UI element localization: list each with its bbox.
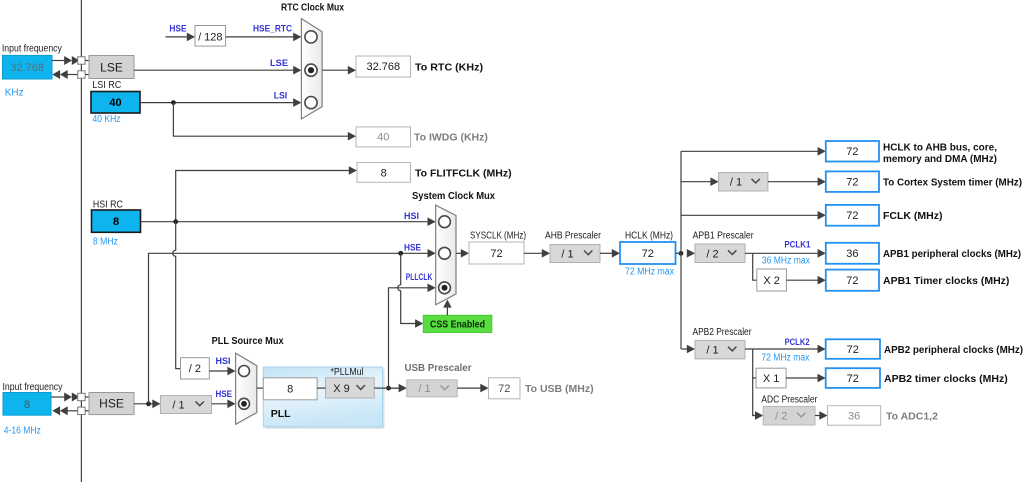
svg-text:X 9: X 9 bbox=[333, 383, 350, 395]
PLL container block bbox=[265, 369, 384, 429]
arrow out 1 (bottom) bbox=[52, 406, 60, 415]
svg-text:To RTC (KHz): To RTC (KHz) bbox=[415, 61, 483, 73]
arrow HSE into system mux bbox=[428, 249, 436, 258]
svg-text:APB2 Prescaler: APB2 Prescaler bbox=[693, 327, 753, 338]
multiplier X 1 bbox=[756, 368, 786, 388]
svg-text:LSE: LSE bbox=[100, 60, 123, 74]
node LSI junction bbox=[171, 100, 176, 105]
output box To USB 72 bbox=[489, 378, 521, 399]
arrow into SYSCLK box bbox=[461, 249, 469, 258]
wire HSE_RTC to RTC mux bbox=[226, 36, 294, 38]
oscillator LSE bbox=[89, 56, 134, 79]
wire trunk to FCLK box bbox=[681, 214, 818, 216]
pin square bottom-in bbox=[78, 393, 85, 400]
svg-text:8: 8 bbox=[287, 384, 293, 396]
value box Cortex 72 bbox=[826, 171, 879, 192]
radio HSI (unselected) bbox=[439, 216, 451, 228]
svg-text:*PLLMul: *PLLMul bbox=[331, 367, 364, 378]
svg-text:Input frequency: Input frequency bbox=[3, 382, 63, 393]
svg-text:HSE: HSE bbox=[99, 397, 124, 411]
svg-text:PLL: PLL bbox=[271, 408, 291, 420]
pin square top-out bbox=[78, 71, 85, 78]
arrow into CSS Enabled bbox=[415, 319, 423, 328]
arrow /1 into PLL mux bbox=[227, 400, 235, 409]
svg-text:72: 72 bbox=[847, 373, 859, 385]
arrow into /128 bbox=[187, 33, 195, 42]
radio HSE (unselected) bbox=[439, 247, 451, 259]
multiplier X 2 bbox=[757, 269, 787, 291]
svg-text:HSE: HSE bbox=[169, 23, 186, 34]
svg-text:8: 8 bbox=[381, 167, 387, 179]
wire APB1 down to X2 bbox=[753, 253, 757, 280]
arrow into Cortex box bbox=[818, 177, 826, 186]
input frequency box 8 (HSE input) bbox=[3, 393, 51, 416]
arrow LSE into mux bbox=[293, 66, 301, 75]
svg-text:/ 128: / 128 bbox=[198, 31, 222, 43]
svg-text:HSE_RTC: HSE_RTC bbox=[253, 23, 292, 34]
oscillator HSI RC box 8 bbox=[92, 210, 141, 232]
output box To FLITFCLK 8 bbox=[357, 163, 411, 183]
wire Cortex prescaler to box bbox=[768, 181, 818, 183]
node HSE-CSS junction bbox=[398, 251, 403, 256]
svg-text:Input frequency: Input frequency bbox=[2, 44, 62, 55]
svg-text:72 MHz max: 72 MHz max bbox=[625, 267, 674, 278]
prescaler / 1 (HSE PLL) bbox=[161, 396, 212, 414]
svg-text:40: 40 bbox=[377, 132, 389, 144]
svg-text:FCLK (MHz): FCLK (MHz) bbox=[883, 210, 942, 222]
wire /1 to PLL mux bbox=[212, 403, 229, 405]
radio LSI (unselected) bbox=[305, 97, 317, 109]
value box HCLK-AHB 72 bbox=[826, 141, 879, 162]
wire system mux output bbox=[456, 252, 462, 254]
svg-text:LSE: LSE bbox=[270, 58, 288, 69]
wire /2 to PLL mux bbox=[209, 370, 228, 372]
svg-text:LSI: LSI bbox=[274, 90, 288, 101]
value box FCLK 72 bbox=[826, 205, 879, 226]
svg-text:CSS Enabled: CSS Enabled bbox=[430, 320, 485, 331]
wire ADC prescaler to box bbox=[815, 415, 820, 417]
svg-text:APB2 timer clocks (MHz): APB2 timer clocks (MHz) bbox=[884, 373, 1008, 385]
wire SYSCLK to AHB prescaler bbox=[524, 252, 543, 254]
arrow in 1 (top) bbox=[64, 56, 72, 65]
svg-text:X 1: X 1 bbox=[763, 373, 780, 385]
mux PLL Source Mux body bbox=[236, 353, 257, 424]
svg-text:System Clock Mux: System Clock Mux bbox=[412, 190, 495, 202]
divider / 2 (PLL HSI) bbox=[181, 358, 210, 379]
wire PLLCLK up to system mux bbox=[389, 288, 429, 388]
svg-text:KHz: KHz bbox=[5, 88, 24, 99]
wire HSE to divider /128 bbox=[166, 36, 188, 38]
svg-text:APB2 peripheral clocks (MHz): APB2 peripheral clocks (MHz) bbox=[884, 344, 1023, 356]
wire LSE to RTC mux bbox=[134, 69, 294, 71]
radio LSE (selected) bbox=[305, 64, 317, 76]
arrow /2 into PLL mux bbox=[227, 367, 235, 376]
arrow into ADC prescaler bbox=[755, 411, 763, 420]
svg-text:PLLCLK: PLLCLK bbox=[406, 272, 433, 283]
arrow out 2 (bottom) bbox=[60, 406, 68, 415]
arrow into APB2 prescaler bbox=[687, 345, 695, 354]
mux System Clock Mux body bbox=[436, 205, 456, 305]
wire PLL to USB prescaler bbox=[389, 387, 400, 389]
oscillator HSE bbox=[89, 393, 134, 415]
svg-text:To USB (MHz): To USB (MHz) bbox=[525, 383, 594, 395]
wire PLL input box to PLLMul bbox=[317, 387, 325, 389]
arrow into APB1 peripheral box bbox=[818, 249, 826, 258]
svg-text:4-16 MHz: 4-16 MHz bbox=[4, 425, 41, 436]
node HSE junction bbox=[146, 401, 151, 406]
svg-text:SYSCLK (MHz): SYSCLK (MHz) bbox=[470, 231, 526, 242]
divider / 128 bbox=[195, 26, 226, 47]
svg-text:APB1 Timer clocks (MHz): APB1 Timer clocks (MHz) bbox=[883, 275, 1009, 287]
svg-text:HSI RC: HSI RC bbox=[93, 200, 123, 211]
svg-text:RTC Clock Mux: RTC Clock Mux bbox=[281, 2, 344, 14]
wire input to chip pin (top) bbox=[52, 60, 65, 62]
svg-text:/ 1: / 1 bbox=[730, 177, 742, 189]
svg-text:/ 2: / 2 bbox=[189, 363, 201, 375]
svg-text:memory and DMA (MHz): memory and DMA (MHz) bbox=[883, 153, 997, 165]
svg-text:HSI: HSI bbox=[216, 356, 231, 367]
value box APB1 timer 72 bbox=[826, 270, 879, 291]
svg-text:HCLK to AHB bus, core,: HCLK to AHB bus, core, bbox=[883, 141, 997, 153]
arrow into HSE /1 bbox=[152, 400, 160, 409]
radio HSE_RTC (unselected) bbox=[305, 31, 317, 43]
node HCLK trunk junction bbox=[679, 251, 684, 256]
value box APB1 peripheral 36 bbox=[826, 243, 879, 264]
svg-text:ADC Prescaler: ADC Prescaler bbox=[761, 394, 818, 405]
wire trunk vertical bbox=[680, 151, 682, 349]
arrow into APB2 peripheral box bbox=[818, 345, 826, 354]
mux RTC Clock Mux body bbox=[301, 19, 322, 119]
prescaler Cortex / 1 bbox=[719, 173, 768, 192]
svg-text:To ADC1,2: To ADC1,2 bbox=[886, 411, 938, 423]
svg-text:32.768: 32.768 bbox=[366, 61, 400, 73]
svg-text:40: 40 bbox=[109, 97, 121, 109]
pin square bottom-out bbox=[78, 407, 85, 414]
svg-text:/ 2: / 2 bbox=[775, 411, 787, 423]
output box To IWDG 40 bbox=[356, 127, 411, 147]
svg-text:72: 72 bbox=[846, 210, 858, 222]
radio PLLCLK (selected) bbox=[439, 282, 451, 294]
output box To ADC 36 bbox=[828, 406, 881, 426]
chip boundary line bbox=[80, 0, 82, 482]
svg-text:72: 72 bbox=[490, 248, 502, 260]
svg-text:/ 1: / 1 bbox=[561, 248, 573, 260]
arrow into HCLK-AHB box bbox=[818, 147, 826, 156]
svg-text:HCLK (MHz): HCLK (MHz) bbox=[625, 231, 673, 242]
arrow out 2 (top) bbox=[60, 70, 68, 79]
wire HCLK to trunk bbox=[676, 252, 682, 254]
svg-text:/ 2: / 2 bbox=[706, 248, 718, 260]
svg-text:PCLK1: PCLK1 bbox=[784, 239, 811, 250]
arrow PLLCLK into system mux bbox=[428, 284, 436, 293]
svg-text:36: 36 bbox=[846, 248, 858, 260]
prescaler APB1 / 2 bbox=[695, 244, 745, 263]
pin square top-in bbox=[78, 57, 85, 64]
wire PLLMul to PLL edge bbox=[374, 387, 382, 389]
wire LSI to RTC mux bbox=[140, 102, 294, 104]
svg-text:LSI RC: LSI RC bbox=[92, 80, 121, 91]
arrow HSE_RTC into mux bbox=[293, 33, 301, 42]
value box APB2 timer 72 bbox=[826, 368, 880, 388]
svg-text:36: 36 bbox=[848, 410, 860, 422]
wire PLL out right segment bbox=[383, 387, 400, 389]
arrow HSI into system mux bbox=[428, 217, 436, 226]
svg-text:PCLK2: PCLK2 bbox=[785, 337, 810, 348]
oscillator LSI RC box 40 bbox=[91, 92, 140, 114]
arrow into FLITFCLK box bbox=[349, 166, 357, 175]
arrow into USB prescaler bbox=[399, 384, 407, 393]
value box SYSCLK 72 bbox=[469, 242, 524, 264]
value box APB2 peripheral 72 bbox=[826, 339, 880, 359]
svg-text:72 MHz max: 72 MHz max bbox=[761, 353, 809, 364]
wire APB2 down to ADC prescaler bbox=[753, 378, 756, 416]
arrow into FCLK box bbox=[818, 211, 826, 220]
wire CSS to system mux bbox=[446, 307, 448, 316]
svg-text:8 MHz: 8 MHz bbox=[93, 236, 118, 247]
wire PLL mux to PLL block bbox=[257, 387, 264, 389]
wire X2 to APB1 timer box bbox=[786, 279, 818, 281]
wire X1 to APB2 timer box bbox=[786, 377, 818, 379]
input frequency box 32.768 (LSE input) bbox=[3, 55, 53, 79]
svg-text:8: 8 bbox=[24, 399, 30, 411]
prescaler USB / 1 (disabled) bbox=[407, 380, 457, 397]
svg-text:/ 1: / 1 bbox=[418, 383, 430, 395]
arrow into To ADC box bbox=[819, 411, 827, 420]
arrow LSI into mux bbox=[293, 98, 301, 107]
arrow in 2 (bottom) bbox=[72, 393, 80, 402]
svg-text:To IWDG (KHz): To IWDG (KHz) bbox=[414, 132, 488, 144]
svg-text:X 2: X 2 bbox=[763, 275, 780, 287]
dropdown PLLMul X 9 bbox=[326, 378, 375, 398]
wire pin to LSE box 2 bbox=[85, 74, 89, 76]
arrow out 1 (top) bbox=[52, 70, 60, 79]
svg-text:To Cortex System timer (MHz): To Cortex System timer (MHz) bbox=[883, 177, 1022, 189]
prescaler AHB / 1 bbox=[550, 245, 600, 263]
wire HSE return bbox=[67, 410, 78, 412]
arrow into USB box bbox=[480, 384, 488, 393]
svg-text:72: 72 bbox=[642, 248, 654, 260]
svg-text:72: 72 bbox=[846, 176, 858, 188]
svg-text:/ 1: / 1 bbox=[172, 399, 184, 411]
wire USB prescaler to USB box bbox=[457, 387, 481, 389]
svg-text:USB Prescaler: USB Prescaler bbox=[405, 362, 472, 374]
svg-text:72: 72 bbox=[846, 146, 858, 158]
arrow into To RTC box bbox=[348, 66, 356, 75]
arrow in 1 (bottom) bbox=[64, 393, 72, 402]
wire HSI to FLITFCLK bbox=[176, 171, 349, 222]
wire input to chip pin (bottom) bbox=[51, 396, 65, 398]
arrow into APB2 timer box bbox=[818, 374, 826, 383]
svg-text:PLL Source Mux: PLL Source Mux bbox=[212, 335, 284, 347]
wire APB1 to peripheral box bbox=[745, 252, 818, 254]
svg-text:8: 8 bbox=[113, 216, 119, 228]
svg-text:72: 72 bbox=[498, 383, 510, 395]
value box HCLK 72 bbox=[620, 242, 676, 264]
radio HSE (selected) bbox=[239, 398, 250, 409]
wire RTC mux output bbox=[322, 69, 348, 71]
wire trunk to APB2 prescaler bbox=[681, 348, 688, 350]
radio HSI (unselected) bbox=[239, 366, 250, 377]
wire pin to LSE box bbox=[85, 60, 89, 62]
wire AHB to HCLK bbox=[600, 252, 613, 254]
svg-text:To FLITFCLK (MHz): To FLITFCLK (MHz) bbox=[415, 167, 512, 179]
wire LSE return bbox=[67, 74, 78, 76]
svg-text:AHB Prescaler: AHB Prescaler bbox=[545, 231, 602, 242]
svg-text:/ 1: / 1 bbox=[706, 345, 718, 357]
arrow into AHB prescaler bbox=[542, 249, 550, 258]
arrow into APB1 prescaler bbox=[687, 249, 695, 258]
wire trunk to HCLK-AHB box bbox=[681, 150, 818, 152]
wire pin to HSE box bbox=[85, 396, 89, 398]
prescaler ADC / 2 (disabled) bbox=[763, 406, 815, 425]
wire HSE box to /1 bbox=[134, 403, 153, 405]
arrow into APB1 timer box bbox=[818, 276, 826, 285]
svg-text:72: 72 bbox=[847, 344, 859, 356]
svg-text:HSE: HSE bbox=[216, 389, 233, 400]
wire HSE up to system mux bbox=[149, 253, 429, 403]
wire HSI to system mux bbox=[141, 221, 429, 223]
arrow CSS up into mux bbox=[443, 300, 451, 308]
indicator CSS Enabled bbox=[423, 315, 492, 332]
arrow in 2 (top) bbox=[72, 56, 80, 65]
wire HSI down to PLL /2 (with hop over HSE wire) bbox=[173, 222, 181, 369]
svg-text:HSE: HSE bbox=[404, 243, 421, 254]
node PLL output junction bbox=[386, 386, 391, 391]
svg-text:32.768: 32.768 bbox=[10, 62, 44, 74]
PLL input box 8 bbox=[263, 378, 317, 400]
svg-text:72: 72 bbox=[846, 275, 858, 287]
arrow into Cortex prescaler bbox=[710, 177, 718, 186]
svg-text:40 KHz: 40 KHz bbox=[93, 114, 121, 125]
wire LSI to IWDG bbox=[173, 103, 348, 137]
svg-text:APB1 peripheral clocks (MHz): APB1 peripheral clocks (MHz) bbox=[883, 248, 1021, 260]
wire CSS branch (with hop over PLLCLK wire) bbox=[398, 253, 416, 323]
wire APB2 down to X1 bbox=[753, 349, 756, 378]
svg-text:36 MHz max: 36 MHz max bbox=[762, 255, 810, 266]
svg-text:HSI: HSI bbox=[404, 211, 419, 222]
output box To RTC 32.768 bbox=[356, 56, 411, 77]
svg-text:APB1 Prescaler: APB1 Prescaler bbox=[693, 231, 755, 242]
arrow into IWDG box bbox=[348, 132, 356, 141]
prescaler APB2 / 1 bbox=[695, 340, 745, 359]
wire trunk to Cortex prescaler bbox=[681, 181, 711, 183]
arrow into HCLK box bbox=[612, 249, 620, 258]
node HSI junction bbox=[173, 219, 178, 224]
wire APB2 to peripheral box bbox=[745, 348, 818, 350]
wire pin to HSE box 2 bbox=[85, 410, 89, 412]
